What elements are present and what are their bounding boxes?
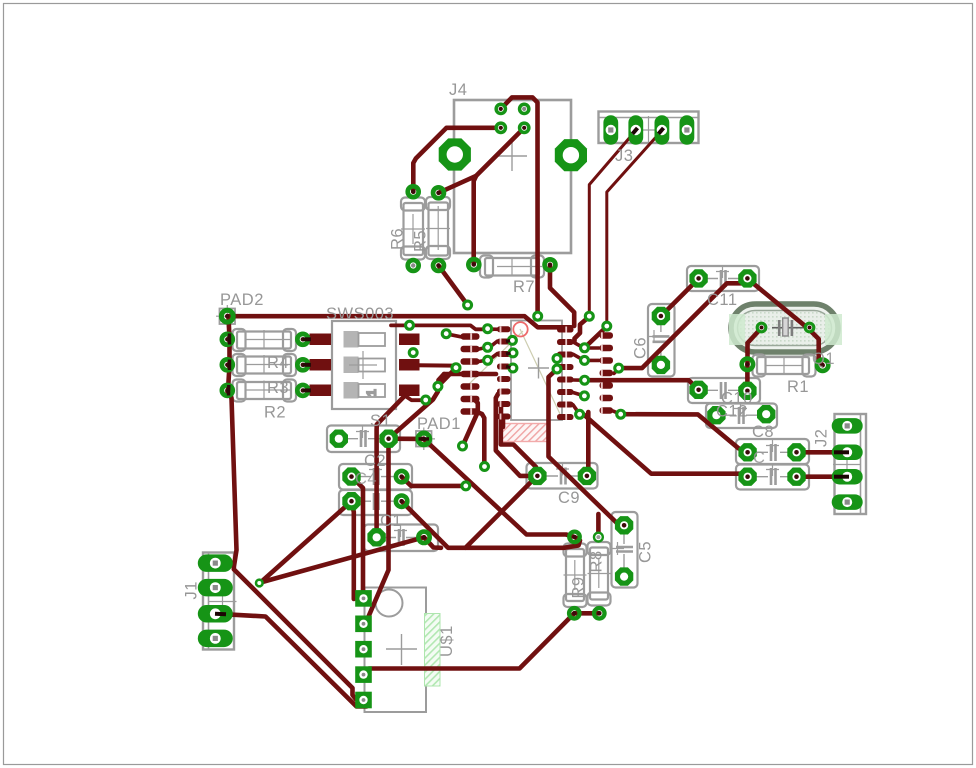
wire IC inner row8 curl <box>501 417 506 428</box>
svg-text:S1: S1 <box>370 412 391 430</box>
wire switch row3 pad stub to via400 <box>406 397 423 401</box>
svg-text:R6: R6 <box>389 228 407 250</box>
pad R7 pin1 (ring) <box>468 259 479 270</box>
svg-text:R8: R8 <box>588 550 606 572</box>
connector J2 body <box>833 414 866 514</box>
svg-text:C8: C8 <box>752 423 774 441</box>
pad C6 pin2 (octagon) <box>652 356 670 374</box>
resistor R7 body (horizontal) <box>480 256 544 278</box>
svg-text:C11: C11 <box>707 291 738 309</box>
wire via438 to via456 <box>438 368 456 387</box>
wire PAD1 diagonal to R9 top pad <box>424 439 573 537</box>
resistor R8 body (vertical) <box>588 542 611 606</box>
pad C1 pin2 (ring) <box>418 532 429 543</box>
wire via620 to C8 left pad <box>621 414 748 452</box>
svg-text:J1: J1 <box>183 581 201 599</box>
pad J3 pin2 (oval) <box>628 115 643 145</box>
svg-text:J4: J4 <box>449 81 467 99</box>
wire J1 pad3 to U$1 pad5 (lower diagonal) <box>217 614 367 707</box>
pad R1 pin2 (ring) <box>817 360 828 371</box>
IC U2 right outer smd pads <box>600 332 614 413</box>
svg-text:C5: C5 <box>637 541 655 563</box>
connector J3 body <box>599 112 699 145</box>
wire IC row7 pad down to via466 <box>476 412 485 467</box>
pad C10 pin2 (octagon) <box>738 382 756 400</box>
svg-text:C9: C9 <box>558 489 580 507</box>
capacitor C5 body <box>611 512 638 588</box>
wire R8 top vertical stub <box>596 514 601 536</box>
pad J3 pin3 (oval) <box>655 115 670 145</box>
via v22 <box>581 356 589 364</box>
pad J1 pin2 (oval) <box>198 579 233 597</box>
pad C11 pin1 (octagon) <box>689 269 707 287</box>
via v27 <box>617 410 625 418</box>
wire IC bottom left to C9 left pad (first) <box>496 394 530 476</box>
pad R2 pin2 (ring) <box>297 385 308 396</box>
capacitor C10 body <box>688 378 760 403</box>
switch SWS003 smd pads right <box>399 334 420 346</box>
svg-text:C: C <box>753 449 765 467</box>
pad PAD2 (ring) <box>221 310 233 322</box>
wire IC right diagonal to C7 left pad <box>582 413 748 477</box>
pad C12 pin2 (octagon) <box>757 405 775 423</box>
pad R3 pin2 (ring) <box>297 359 308 370</box>
pad PAD1 (ring) <box>418 433 430 445</box>
wire via618 to C11 right pad <box>619 279 748 369</box>
via v26 <box>615 364 623 372</box>
pad J2 pin3 (oval) <box>832 469 863 485</box>
pad U$1 pin3 (square) <box>355 641 372 658</box>
pad C11 pin2 (octagon) <box>738 269 756 287</box>
wire link R3 pin2 to smd <box>303 363 311 367</box>
wire branch to R5b top pad <box>439 176 477 193</box>
via v17 <box>553 365 561 373</box>
capacitor C6 body <box>648 304 675 377</box>
wire C11 right pad to crystal right pad <box>747 279 808 329</box>
wire R5b bottom to via467 <box>439 266 468 305</box>
wire IC left outer pads to vias <box>478 348 486 350</box>
via v10 <box>484 325 492 333</box>
wire via583 to C1 right pad (shallow diagonal) <box>261 537 425 582</box>
via v5 <box>452 364 460 372</box>
wire R7 right pad down to IC pin1 <box>550 265 574 326</box>
wire IC right outer pads from vias <box>586 346 599 350</box>
via v2 <box>603 322 611 330</box>
wire J4 pad1 over top then down to via537 <box>501 97 538 314</box>
IC U1 left pads <box>497 326 511 419</box>
wire IC right down to C9 right pad <box>586 412 591 473</box>
pad crystal Q1 pin1 (ring) <box>757 323 766 332</box>
via v4 <box>409 349 417 357</box>
wire link through PAD1 <box>419 437 430 440</box>
capacitor S1/C2 body <box>327 425 400 452</box>
wire link R4 pin2 to smd <box>303 337 311 341</box>
pad C3 pin2 (ring) <box>396 496 407 507</box>
pad U$1 pin4 (square) <box>355 666 372 683</box>
pad R9 pin1 (ring) <box>569 532 580 543</box>
wire J4 pad4 diagonal down to R7 left pad <box>474 128 525 264</box>
via v6 <box>434 382 442 390</box>
wire via589 down to IC pin2 <box>575 317 590 341</box>
svg-text:R7: R7 <box>513 278 535 296</box>
pad S1 pin2 (octagon) <box>379 430 397 448</box>
resistor R4 body <box>233 329 297 351</box>
wire C11 left pad to C6 top pad <box>661 279 699 317</box>
pad C8 pin2 (octagon) <box>787 443 805 461</box>
via v9 <box>442 330 450 338</box>
wire C1 right pad joining rail to R9 top <box>424 537 441 548</box>
wire via579 stub <box>573 405 580 414</box>
pad J2 pin2 (oval) <box>832 445 863 461</box>
wire rail west bend <box>438 374 444 385</box>
resistor R3 body <box>233 354 297 376</box>
wire PAD2 to IC pin (long horizontal) <box>227 316 571 327</box>
svg-text:Q1: Q1 <box>812 350 835 368</box>
via v12 <box>484 356 492 364</box>
connector J4 mounting octagon right <box>555 139 587 171</box>
pad C1 pin1 (octagon) <box>367 528 385 546</box>
via v8 <box>464 301 472 309</box>
wire crystal left pad to R1 left pad <box>748 328 762 364</box>
via v25 <box>576 410 584 418</box>
pad R4 pin1 / column (ring) <box>222 334 233 345</box>
crystal keepout hatch right <box>825 314 842 345</box>
pad R5 pin2 (ring) <box>408 260 419 271</box>
capacitor C8 body <box>736 439 809 464</box>
U$1 glue hatch rect <box>425 614 441 687</box>
pad C7 pin1 (octagon) <box>738 468 756 486</box>
pad C3 pin1 (octagon) <box>342 492 360 510</box>
wire S1 right pad diagonal to via438 <box>390 387 438 438</box>
via v20 <box>462 482 470 490</box>
wire link R2 pin2 to smd <box>303 388 311 392</box>
pad C8 pin1 (octagon) <box>738 443 756 461</box>
wire C3 left pad down to U$1 pad1 area <box>352 501 354 599</box>
connector J1 body <box>203 553 237 650</box>
pad C6 pin1 (octagon) <box>652 307 670 325</box>
svg-text:C1: C1 <box>380 512 402 530</box>
via v7 <box>422 396 430 404</box>
via v11 <box>484 343 492 351</box>
via v19 <box>481 463 489 471</box>
crystal symbol <box>772 327 811 329</box>
via v15 <box>509 364 517 372</box>
pad J1 pin3 (oval) <box>198 605 233 623</box>
wire J4 pad3 left then down to R5 top <box>413 128 501 192</box>
wire C4 left pad down to U$1 pad2 (vertical) <box>352 477 364 599</box>
resistor R5 body (left vertical) <box>401 198 425 260</box>
connector J4 center cross <box>497 141 527 171</box>
switch SWS003 body <box>332 321 396 409</box>
pad J2 pin1 (oval) <box>832 418 863 434</box>
IC U$1 body <box>365 588 427 713</box>
via v3 <box>406 321 414 329</box>
connector J4 pin pads <box>494 103 530 135</box>
wire J3 pad3 down to via606 <box>607 131 662 325</box>
wire C8 right pad to J2 pad2 <box>797 450 848 455</box>
wire S1 right pad down then to U$1 pad2 <box>364 439 389 624</box>
pad R9 pin2 (ring) <box>569 608 580 619</box>
wire stub U1 pin row2 to edge via <box>506 339 510 343</box>
pad J2 pin4 (oval) <box>832 494 863 510</box>
svg-text:PAD2: PAD2 <box>220 291 264 309</box>
capacitor C3 body <box>339 490 412 515</box>
svg-text:PAD1: PAD1 <box>417 415 461 433</box>
pad S1 pin1 (octagon) <box>330 430 348 448</box>
wire S1 right pad to PAD1 <box>389 436 424 441</box>
via v18 <box>459 442 467 450</box>
capacitor C4 body <box>339 463 412 490</box>
pad crystal Q1 pin2 (ring) <box>805 323 814 332</box>
via v1 <box>585 312 593 320</box>
svg-text:R9: R9 <box>570 576 588 598</box>
pad R6 pin1 (ring) <box>433 187 444 198</box>
svg-text:C12: C12 <box>716 403 748 421</box>
pad C12 pin1 (octagon) <box>707 406 725 424</box>
svg-text:C2: C2 <box>364 452 386 470</box>
svg-text:R4: R4 <box>267 354 289 372</box>
switch SWS003 smd pads left <box>310 334 332 346</box>
wire R2 left pad down to J1 corner then diagonal to U$1 pad5 <box>228 392 364 700</box>
crystal Q1 stadium outline <box>731 302 838 356</box>
capacitor C9 body <box>527 463 598 489</box>
capacitor C1 body <box>364 524 438 551</box>
svg-text:R1: R1 <box>787 378 809 396</box>
pad J3 pin1 (oval) <box>603 115 618 145</box>
wire C9 left pad diagonal to lower rail <box>466 476 538 548</box>
svg-text:J3: J3 <box>615 147 633 165</box>
pad C5 pin2 (octagon) <box>615 567 633 585</box>
pad R4 pin2 (ring) <box>297 334 308 345</box>
resistor R9 body (vertical) <box>564 544 587 608</box>
IC U1 pin1 marker circle <box>513 322 527 336</box>
pad C9 pin1 (octagon) <box>528 467 546 485</box>
pad C7 pin2 (octagon) <box>787 468 805 486</box>
wire via583 to C3 left pad <box>261 501 352 582</box>
wire via409 long horizontal to IC pin1 <box>391 325 493 329</box>
via v_small <box>256 580 263 587</box>
via v23 <box>581 376 589 384</box>
svg-text:C4: C4 <box>355 470 377 488</box>
via v21 <box>581 344 589 352</box>
resistor R5b body (right vertical) <box>426 197 450 259</box>
capacitor C12 body <box>706 402 777 428</box>
pad J3 pin4 (oval) <box>680 115 695 145</box>
IC U1 restrict hatch rect <box>502 424 548 442</box>
pad R8 pin1 <box>593 532 604 543</box>
pad PAD1 square <box>416 431 432 447</box>
pad R8 pin2 (ring) <box>594 608 605 619</box>
wire PAD2 down left pad column <box>228 316 230 390</box>
via v16 <box>553 355 561 363</box>
capacitor C7 body <box>736 463 809 490</box>
pad R2 pin1 / column (ring) <box>222 385 233 396</box>
IC U2 left outer smd pads <box>461 333 480 414</box>
via v24 <box>580 392 588 400</box>
svg-text:SWS003: SWS003 <box>326 305 394 323</box>
wire IC right to C5 top (via rail) <box>549 370 625 528</box>
pad U$1 pin1 (square) <box>355 590 372 607</box>
connector J4 mounting octagon left <box>439 138 471 170</box>
wire switch row3 pad to C1 left pad (diag + vertical) <box>377 395 406 537</box>
svg-text:U$1: U$1 <box>438 625 456 657</box>
wire via617 stub from right outer pad <box>613 411 621 414</box>
wire C7 right pad to J2 pad3 <box>797 474 848 479</box>
wire via486 to C4 right pad <box>402 477 466 486</box>
IC U1 body (center SSOP) <box>466 321 562 421</box>
svg-text:R3: R3 <box>267 379 289 397</box>
svg-text:R5: R5 <box>412 230 430 252</box>
via v0 <box>534 312 542 320</box>
wire via584 to C10 left pad <box>585 380 699 390</box>
resistor R1 body <box>753 355 816 377</box>
svg-text:1: 1 <box>365 389 379 396</box>
wire R9 bottom to R8 bottom <box>574 611 599 616</box>
wire via606 diagonal to via584 <box>585 327 607 348</box>
pad U$1 pin5 (square) <box>355 692 372 709</box>
pad R3 pin1 / column (ring) <box>222 359 233 370</box>
IC U1 right pads <box>557 327 574 421</box>
wire IC right inner stubs to via col <box>573 342 583 348</box>
svg-text:R2: R2 <box>264 404 286 422</box>
pad PAD2 square <box>220 309 236 325</box>
wire switch row2 right pad to via456 <box>418 365 457 367</box>
pad C4 pin1 (octagon) <box>342 467 360 485</box>
wire J3 pad2 down to via588 <box>589 131 636 315</box>
wire R9 bottom diagonal to U$1 pad4 <box>364 613 575 672</box>
wire link R4 pin1 column <box>228 334 231 345</box>
pad R6 pin2 (ring) <box>433 260 444 271</box>
pad C5 pin1 (octagon) <box>615 516 633 534</box>
pad J1 pin1 (oval) <box>198 554 233 572</box>
pad C10 pin1 (octagon) <box>689 381 707 399</box>
crystal keepout hatch left <box>729 314 745 345</box>
pad C9 pin2 (octagon) <box>578 467 596 485</box>
via v14 <box>509 349 517 357</box>
via v13 <box>508 336 516 344</box>
pad R7 pin2 (ring) <box>545 259 556 270</box>
wire IC bottom left to C9 left pad (second) <box>501 406 538 472</box>
pad U$1 pin2 (square) <box>355 616 372 633</box>
wire stub U1 pin row4 to edge via <box>506 367 511 368</box>
pad C4 pin2 (ring) <box>396 471 407 482</box>
wire stub U1 pin row3 to edge via <box>506 353 511 354</box>
svg-text:C6: C6 <box>632 337 650 359</box>
wire rail near IC row4 <box>444 372 496 377</box>
wire C3 right pad diagonal rail to R9 top pad <box>402 501 580 548</box>
wire crystal right pad to R1 right pad <box>808 328 823 365</box>
pad R1 pin1 (ring) <box>742 359 753 370</box>
pad J1 pin4 (oval) <box>198 630 233 648</box>
pad R5 pin1 (ring) <box>408 186 419 197</box>
wire IC left inner stubs to via col <box>490 341 498 347</box>
svg-text:J2: J2 <box>813 429 831 447</box>
resistor R2 body <box>233 380 297 402</box>
capacitor C11 body <box>687 265 759 291</box>
wire IC row6 pad down to via446 <box>463 399 478 446</box>
connector J4 body <box>454 100 571 253</box>
wire R1 left pad down to C10 right pad <box>745 364 750 391</box>
